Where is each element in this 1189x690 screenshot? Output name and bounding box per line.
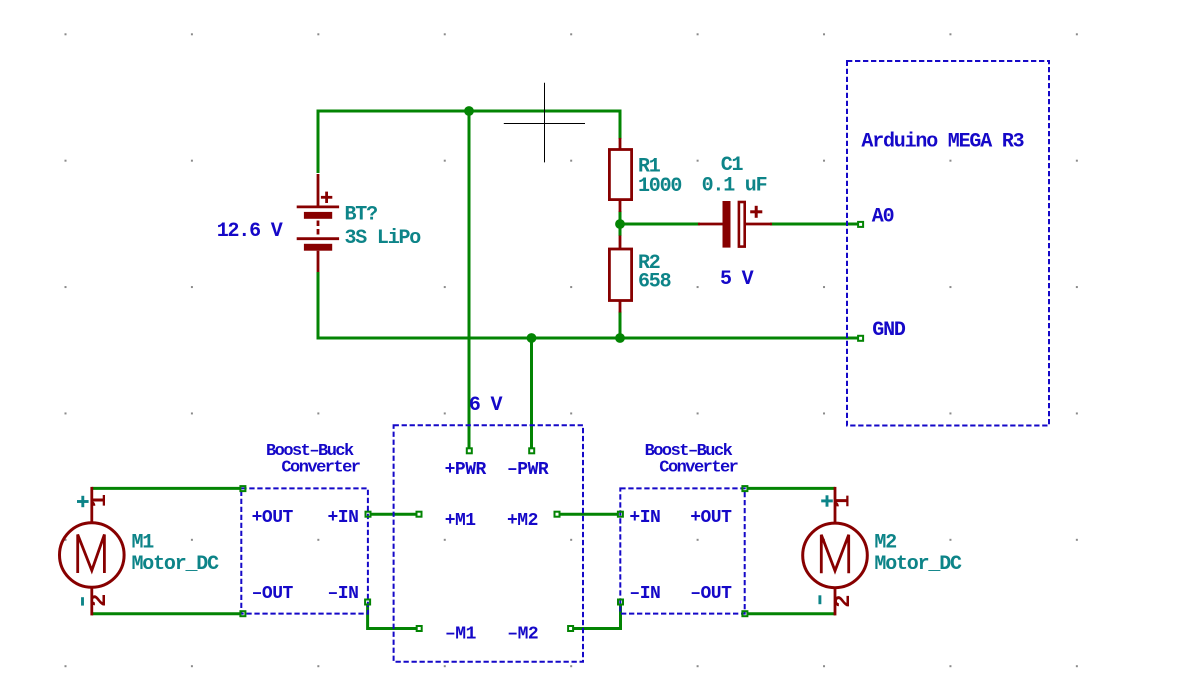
svg-text:1: 1 (87, 494, 112, 507)
svg-text:+IN: +IN (629, 508, 660, 528)
sheet pin +OUT (right converter) (742, 486, 747, 491)
svg-text:Converter: Converter (281, 458, 359, 477)
sheet pin +IN (left converter) (366, 512, 371, 517)
sheet pin -IN (left converter) (365, 600, 370, 605)
svg-text:–IN: –IN (328, 584, 359, 604)
motor M1 (60, 487, 125, 616)
junction: divider node R1/R2/C1 (615, 219, 625, 229)
svg-text:+OUT: +OUT (690, 508, 732, 528)
sheet pin GND (858, 336, 863, 341)
svg-text:1000: 1000 (638, 175, 681, 198)
svg-text:BT?: BT? (345, 204, 378, 227)
svg-text:M1: M1 (132, 531, 155, 554)
wire: R1 bottom to R2 top through divider node (619, 211, 622, 236)
svg-text:–M1: –M1 (445, 624, 477, 644)
svg-text:GND: GND (872, 319, 906, 342)
wire: R2 bottom to GND rail (619, 312, 622, 339)
label: M2 pin 2 minus mark (818, 595, 821, 604)
svg-text:5 V: 5 V (720, 268, 754, 291)
sheet pin +M1 (417, 512, 422, 517)
svg-text:–OUT: –OUT (252, 584, 294, 604)
svg-text:12.6 V: 12.6 V (217, 220, 283, 243)
svg-text:M2: M2 (874, 531, 896, 554)
svg-text:–M2: –M2 (507, 624, 538, 644)
sheet pin +PWR (467, 448, 472, 453)
sheet: left Boost-Buck Converter (241, 488, 368, 613)
sheet pin A0 (858, 222, 863, 227)
svg-text:6 V: 6 V (469, 394, 503, 417)
svg-text:A0: A0 (872, 205, 894, 228)
svg-text:+IN: +IN (328, 508, 359, 528)
capacitor C1 (698, 201, 772, 248)
junction: GND rail at -PWR drop (527, 333, 537, 343)
svg-text:1: 1 (831, 495, 856, 508)
label: M2 pin 1 plus mark (821, 495, 833, 506)
junction: GND rail at R2 (615, 333, 625, 343)
sheet: right Boost-Buck Converter (620, 488, 744, 613)
sheet pin +IN (right converter) (618, 512, 623, 517)
resistor R2 (609, 236, 631, 313)
wire: GND rail down to -PWR of motor driver sheet (530, 338, 533, 448)
svg-text:Motor_DC: Motor_DC (132, 553, 220, 576)
sheet pin +OUT (left converter) (240, 486, 245, 491)
label: M1 pin 2 minus mark (81, 597, 84, 605)
sheet pin -M1 (417, 626, 422, 631)
svg-text:+M2: +M2 (507, 511, 538, 531)
svg-text:+M1: +M1 (445, 511, 477, 531)
wire: M1 minus to left converter -OUT (92, 612, 241, 615)
sheet pin -OUT (right converter) (742, 611, 747, 616)
wire: right converter -IN down and left to sheet pin -M2 (572, 605, 620, 629)
wire: sheet pin +M2 to right converter +IN (559, 513, 619, 516)
sheet pin -M2 (568, 626, 573, 631)
sheet pin -OUT (left converter) (240, 611, 245, 616)
sheet pin -PWR (529, 448, 534, 453)
wire: battery minus to GND rail across to Arduino GND pin (318, 272, 858, 338)
svg-text:+PWR: +PWR (445, 460, 487, 480)
svg-text:–IN: –IN (629, 584, 660, 604)
wire: right converter +OUT to M2 plus (747, 487, 835, 490)
wire: left converter +IN to sheet pin +M1 (370, 513, 418, 516)
wire: 12.6V rail down to +PWR of motor driver sheet (468, 111, 471, 448)
wire: left converter -IN down and right to sheet pin -M1 (368, 605, 418, 629)
svg-text:Arduino MEGA R3: Arduino MEGA R3 (861, 130, 1023, 153)
svg-text:Motor_DC: Motor_DC (874, 553, 962, 576)
svg-text:2: 2 (831, 595, 856, 608)
sheet: Arduino MEGA R3 (847, 61, 1049, 426)
sheet: motor driver block (394, 425, 583, 661)
sheet pin -IN (right converter) (618, 600, 623, 605)
svg-text:+OUT: +OUT (252, 508, 294, 528)
svg-text:–PWR: –PWR (507, 460, 549, 480)
wire: right converter -OUT to M2 minus (747, 612, 835, 615)
resistor R1 (609, 138, 631, 212)
svg-text:2: 2 (87, 594, 112, 607)
svg-text:0.1 uF: 0.1 uF (702, 174, 767, 197)
wire: C1 right pin to Arduino A0 pin (770, 223, 858, 226)
wire: M1 plus to left converter +OUT (92, 487, 241, 490)
motor M2 (803, 487, 868, 616)
wire: battery plus to R1 top (net 12.6V) (318, 111, 620, 173)
wire: divider node to C1 left pin (620, 223, 700, 226)
junction: 12.6V rail tap (464, 106, 474, 116)
battery BT? (297, 174, 339, 272)
svg-text:Converter: Converter (659, 458, 737, 477)
svg-text:3S LiPo: 3S LiPo (345, 227, 422, 250)
cursor crosshair (504, 83, 585, 163)
svg-text:658: 658 (638, 270, 671, 293)
sheet pin +M2 (555, 512, 560, 517)
label: M1 pin 1 plus mark (77, 496, 89, 507)
svg-text:–OUT: –OUT (690, 584, 732, 604)
